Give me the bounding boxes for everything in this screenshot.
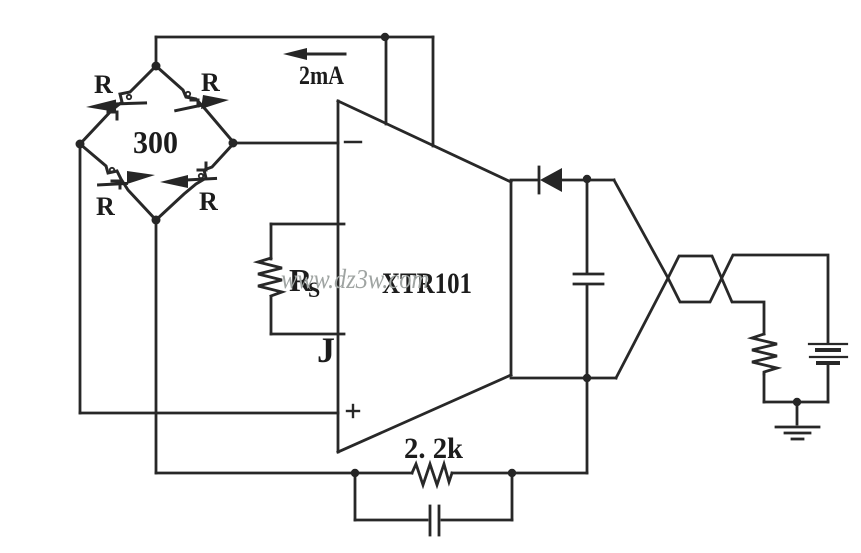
svg-text:300: 300 — [133, 124, 178, 160]
svg-text:R: R — [201, 68, 220, 97]
svg-text:2. 2k: 2. 2k — [404, 432, 463, 465]
svg-text:R: R — [199, 187, 218, 216]
svg-text:www.dz3w.com: www.dz3w.com — [281, 264, 429, 294]
svg-text:2mA: 2mA — [299, 61, 344, 90]
svg-text:R: R — [94, 70, 113, 99]
svg-text:J: J — [317, 330, 335, 370]
svg-text:R: R — [96, 192, 115, 221]
